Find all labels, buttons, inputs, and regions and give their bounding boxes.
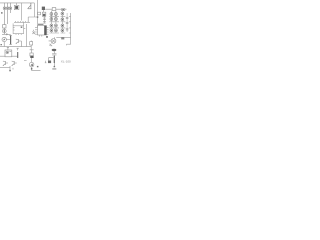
wire input top right — [45, 8, 66, 10]
resistor R1 — [9, 3, 12, 13]
diode D1 — [2, 33, 11, 35]
capacitor C6 — [32, 30, 35, 34]
IC U1 — [13, 22, 25, 35]
label U2 text — [38, 24, 43, 25]
transistor Q3 — [2, 37, 10, 46]
wire rail x67 — [66, 13, 68, 32]
node C — [37, 66, 39, 67]
wire bottom bus left — [0, 46, 31, 48]
capacitor C9 — [52, 68, 56, 69]
wire bottom bus 2 — [0, 55, 18, 57]
wire R2 lead — [42, 10, 44, 12]
wire row link 2 — [49, 21, 70, 23]
capacitor C2 — [6, 3, 9, 24]
comb row — [14, 21, 30, 22]
wire rail x37 — [37, 0, 39, 27]
transformer T3 — [50, 24, 64, 27]
IC U2 — [35, 26, 49, 38]
capacitor C10 — [66, 29, 69, 30]
transformer T2 — [50, 18, 64, 21]
wire rail x34 — [33, 3, 35, 17]
wire stub left — [24, 59, 27, 61]
svg-text:XL-100: XL-100 — [61, 60, 71, 64]
transistor Q1 — [28, 3, 32, 9]
capacitor C8 — [52, 51, 56, 66]
stub J — [45, 61, 47, 63]
crystal Y1 — [14, 3, 19, 10]
capacitor C4 — [66, 18, 69, 19]
transformer T1 — [50, 12, 64, 15]
transistor Q5 — [3, 61, 8, 66]
node G — [31, 68, 33, 69]
label TP — [61, 37, 64, 39]
wire row link 4 — [49, 32, 70, 34]
speaker LS1 — [49, 37, 56, 43]
inductor L2 — [17, 48, 19, 58]
resistor R5 — [52, 8, 56, 11]
wire M1 bottom — [32, 67, 41, 71]
wire stem col C — [61, 10, 63, 33]
resistor R3 — [38, 12, 41, 15]
wire rail x26 — [26, 24, 28, 47]
transistor Q2 — [2, 28, 6, 34]
capacitor C1 — [3, 3, 6, 25]
ground stub — [9, 66, 11, 70]
wire bottom bus 3 — [0, 67, 10, 69]
wire stem col A — [50, 11, 52, 34]
stub Q6 emitter — [12, 68, 14, 70]
transistor Q4 — [16, 39, 22, 47]
battery BT1 — [52, 49, 57, 51]
wire rail x31 mid — [30, 41, 32, 50]
ground arrow — [49, 44, 52, 46]
resistor R10 — [53, 56, 55, 63]
wire row link 3 — [49, 27, 70, 29]
wire row link 1 — [49, 16, 70, 18]
node D — [9, 70, 11, 71]
wire corner bottom — [49, 58, 54, 61]
resistor R4 — [42, 12, 45, 16]
capacitor C7 — [30, 53, 34, 58]
relay K1 — [5, 47, 12, 56]
resistor R9 — [3, 25, 6, 28]
node B — [37, 16, 39, 17]
node A — [1, 12, 3, 13]
transformer T4 — [50, 29, 64, 32]
inductor L1 — [9, 35, 12, 44]
meter M1 — [29, 62, 34, 67]
capacitor C5 — [66, 23, 69, 24]
node F — [1, 44, 2, 45]
capacitor ladder C3 — [43, 16, 46, 23]
wire top bus — [0, 2, 34, 4]
wire stem col B — [55, 11, 57, 34]
resistor R2 — [42, 7, 45, 10]
wire branch — [28, 17, 37, 22]
wire speaker top — [56, 36, 70, 38]
wire C7 down — [31, 58, 33, 62]
capacitor C7 top bar — [30, 50, 34, 53]
resistor R8 — [30, 42, 33, 45]
resistor R6 — [62, 9, 65, 11]
wire rail x70 — [70, 13, 72, 40]
label OUT — [48, 61, 51, 64]
wire corner right — [66, 40, 70, 45]
wire rail x21 — [20, 3, 22, 21]
transistor Q6 — [12, 61, 17, 66]
node E — [54, 66, 56, 67]
